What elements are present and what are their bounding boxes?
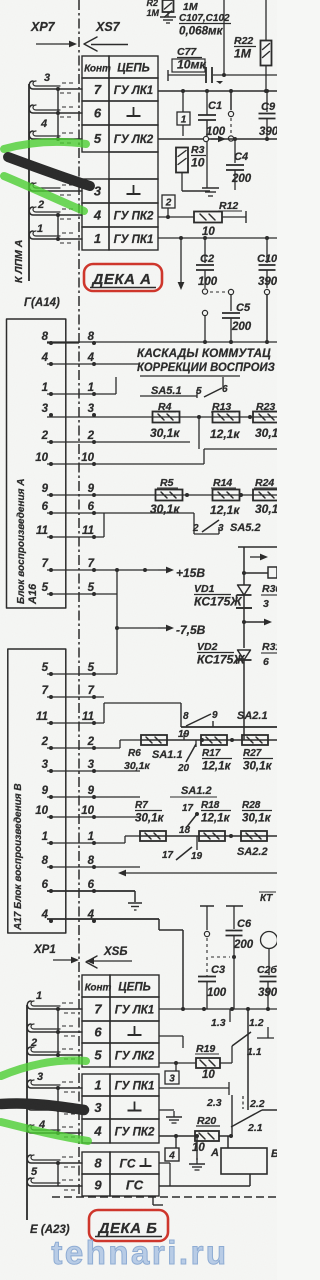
wire A pin 5 [47,593,117,595]
wire B pin 5 [47,673,117,675]
switch SA1.2 label [170,785,217,797]
label E(A23) [30,1224,70,1236]
resistor R3 [176,144,206,173]
resistor R13 [210,401,240,441]
ground under C1 [202,188,219,196]
black marker mark bottom [1,1103,84,1110]
contact 1.2 [232,1017,274,1046]
wires deck B plug pins [27,990,82,1190]
cable bundle line deck B [26,1005,28,1220]
wire GU PK2 row [158,211,246,223]
capacitor C10 [257,238,278,288]
capacitor C2 [196,238,218,288]
wire A pin 8 [47,342,79,344]
node 1 box [177,89,190,136]
green highlighter mark bottom 1 [1,1060,86,1076]
wire A pin 6 [47,513,219,534]
head box A [210,1136,279,1174]
green highlighter mark bottom 2 [1,1122,88,1141]
resistor R14 [210,477,240,517]
wire row R7 [141,834,277,838]
wire B pin 8 [47,866,140,868]
contact 2.1 [231,1095,277,1136]
wire A pin 2 [47,441,190,443]
resistor R7 [135,800,166,841]
wire bot row3 ground [159,1110,182,1123]
arrow XP1 plug [53,957,79,964]
label Blok vosproizvedeniya A vertical [16,479,27,605]
label A16 vertical [27,583,39,605]
resistor R23 [253,401,281,440]
title KASKADY KOMMUTACII [137,346,271,360]
block B pin numbers and dots [35,662,96,923]
wire vertical to C77 node [222,0,226,77]
wire A pin 4 [47,363,140,365]
wire A pin 9 row R5 [47,494,277,496]
connector label XS7 [95,20,121,34]
ground under head [189,1134,205,1170]
wire long arrow left [118,870,277,877]
contact 2.3 [206,1097,222,1109]
resistor R19 [159,1043,232,1081]
arrow down from GU PK1 [178,238,185,290]
contact 1.1 [247,1046,262,1058]
wire A pin 10 [47,449,277,464]
switch SA5.1 [140,377,228,398]
connector table XS7 [82,56,158,250]
capacitor C9 [259,89,279,139]
node 4 box [165,1136,179,1162]
resistor R30 label [261,583,281,610]
switch SA1.1 [152,740,196,774]
wire GS row [159,1174,250,1186]
label DEKA A red box [84,264,162,291]
resistor R17 [201,735,232,773]
wire B pin 1 [47,836,141,843]
wire plus 15V [158,566,205,580]
resistor R27 [242,735,273,773]
switch contacts near C1 [228,91,233,141]
resistor R31 label [261,641,281,668]
switch SA2.2 [162,836,268,862]
wire GULK1 row deck B [159,1007,277,1011]
label A17 Blok vosproizvedeniya V vertical [13,783,24,931]
wire GU LK2 row [158,136,277,142]
connector XS7 socket symbol [84,37,128,51]
connector label XSB [103,946,127,958]
wire pin8 block A long line [47,341,277,343]
label DEKA B red box [89,1210,168,1241]
label G(A14) [24,297,60,309]
node 3 box [165,1063,179,1085]
label 1M floating [183,1,198,13]
title KORREKCII VOSPROIZV [137,362,275,376]
resistor R4 [150,401,180,440]
green highlighter mark top 1 [4,142,86,149]
deck boundary dash line vertical [78,0,80,1196]
cable bundle line deck A [28,84,30,281]
label C107 C102 value [179,13,231,38]
zener VD2 [197,641,252,740]
deck boundary dash line horizontal bottom [52,1196,277,1198]
arrow XP7 plug [36,41,77,48]
wire A pin 7 plus15 [47,568,158,572]
wire A pin 11 [47,513,104,537]
resistor R6 [124,735,167,772]
capacitor C3 [198,955,236,1009]
wire minus 7.5V [117,623,206,637]
switch SA2.1 [181,703,277,727]
switch SA5.2 [185,493,261,534]
wire GU LK1 row [158,89,277,93]
wire R3 to ground [182,172,210,191]
black marker mark top [8,157,90,186]
connector XSB socket symbol [86,956,97,968]
wire B pin 4 [47,919,183,1009]
wire B pin 2 [47,740,141,748]
wide bar under VD1 [236,595,252,648]
wire bot row 6 ground stub [159,1036,183,1048]
jumper post 1 [200,906,214,955]
ground under R2 [160,12,176,23]
wire GU PK1 row [158,236,277,240]
wire A pin 3 row R4 [47,416,277,418]
wire B pin 3 [47,770,140,772]
wire B pin 9 [47,796,140,798]
capacitor C5 [222,289,252,344]
resistor R20 [159,1115,233,1154]
wire VD2 junction [242,619,272,626]
capacitor C77 [206,67,212,83]
capacitor C4 [226,137,252,190]
wire to test box [244,554,277,578]
junction dots row R4 [197,415,252,449]
wires deck A plug pins [29,72,82,243]
resistor R22 [234,35,272,66]
resistor R24 [253,477,281,516]
wire B pin 11 [47,703,181,723]
wire stub below table [153,1196,163,1205]
wire node top [168,70,277,84]
green highlighter mark top 2 [4,176,84,211]
capacitor C77 label [172,46,207,72]
connector label XP1 [33,944,56,956]
resistor R28 [241,800,272,841]
contact 2.2 [243,1096,265,1110]
resistor R2 [146,0,173,18]
wire row R6 [141,738,277,742]
wire A pin 1 [47,377,116,394]
capacitor C20 [257,949,278,1009]
block B box [8,649,66,933]
test point KT [259,892,278,949]
wire B pin 10 [47,816,140,818]
wire top right VD area [238,546,277,548]
arrow XSB [86,958,132,965]
wire C10 branch [264,289,269,344]
contact 18 [179,814,197,836]
switch contacts under C2 [202,289,226,344]
contact 17 label [182,803,199,816]
connector table XSB [82,975,159,1196]
contact 19 label [178,729,190,740]
node 2 box [162,195,175,219]
resistor R5 [150,477,183,516]
connector label XP7 [30,20,56,34]
wire vertical link [246,1007,250,1110]
wire B pin 7 [47,696,104,698]
contact 1.3 [211,1009,230,1029]
wire B pin 6 ground [100,891,142,910]
capacitor C6 [226,906,254,1009]
capacitor C1 [198,91,226,188]
resistor R12 [194,200,242,238]
block A box [7,319,66,608]
wire GS ground row [159,1163,170,1186]
resistor R18 [199,800,231,841]
wire GUPK1 row deck B [159,1082,229,1095]
block A pin numbers and dots [35,331,96,596]
label K LPM A vertical [13,240,25,283]
watermark tehnari.ru [51,1234,228,1271]
wire B pin 6 [47,890,100,892]
wire vertical pin5 link [115,570,119,674]
wire R22 leads [264,0,268,93]
zener VD1 [194,547,252,609]
